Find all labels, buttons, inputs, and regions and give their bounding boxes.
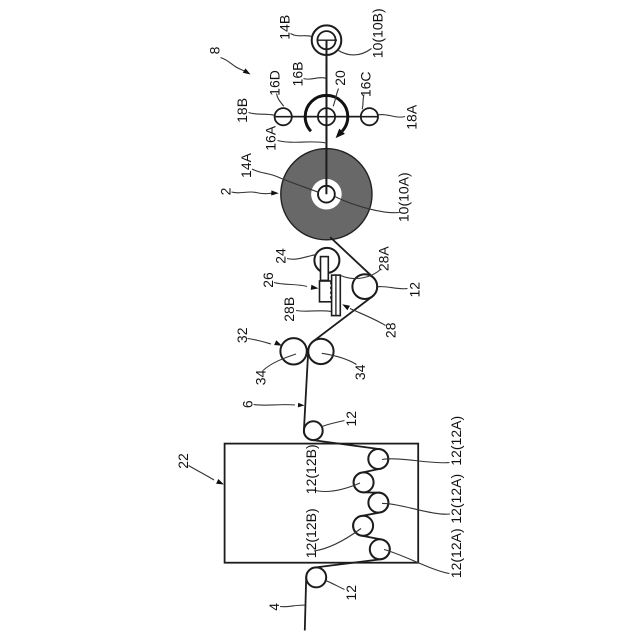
svg-text:12(12A): 12(12A) [448, 474, 464, 524]
svg-text:32: 32 [234, 327, 250, 343]
svg-text:12: 12 [343, 411, 359, 427]
svg-text:10(10B): 10(10B) [370, 8, 386, 58]
svg-text:12(12A): 12(12A) [448, 416, 464, 466]
svg-text:12(12A): 12(12A) [448, 528, 464, 578]
svg-text:22: 22 [175, 453, 191, 469]
svg-text:10(10A): 10(10A) [396, 172, 412, 222]
svg-text:2: 2 [217, 187, 233, 195]
svg-text:26: 26 [260, 272, 276, 288]
svg-text:18A: 18A [403, 104, 419, 130]
svg-text:12(12B): 12(12B) [303, 444, 319, 494]
svg-text:28B: 28B [281, 297, 297, 322]
svg-text:16B: 16B [290, 62, 306, 87]
svg-text:12: 12 [406, 282, 422, 298]
svg-text:28: 28 [382, 322, 398, 338]
svg-text:16D: 16D [266, 70, 282, 96]
svg-text:12(12B): 12(12B) [303, 508, 319, 558]
svg-text:16A: 16A [262, 125, 278, 151]
svg-text:4: 4 [266, 603, 282, 611]
svg-text:24: 24 [273, 248, 289, 264]
svg-text:8: 8 [207, 46, 223, 54]
svg-text:12: 12 [343, 585, 359, 601]
svg-text:14A: 14A [238, 152, 254, 178]
svg-text:14B: 14B [277, 15, 293, 40]
svg-text:6: 6 [239, 400, 255, 408]
svg-text:34: 34 [352, 364, 368, 380]
svg-text:18B: 18B [234, 98, 250, 123]
svg-text:28A: 28A [376, 246, 392, 272]
svg-text:34: 34 [252, 370, 268, 386]
svg-text:16C: 16C [357, 71, 373, 97]
svg-text:20: 20 [332, 70, 348, 86]
